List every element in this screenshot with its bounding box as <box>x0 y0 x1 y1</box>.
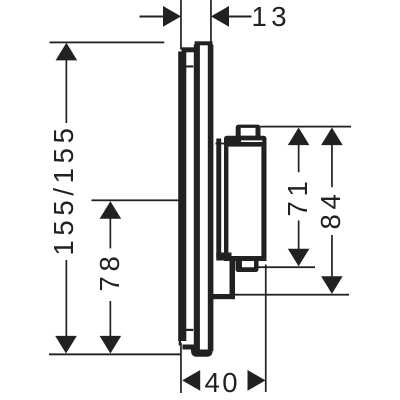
dim 155 up arrow <box>56 43 78 61</box>
dim 40 left arrow <box>182 370 200 391</box>
wire: dim 84 line lower segment <box>331 235 333 277</box>
plate top cap <box>195 41 213 45</box>
sleeve wall foot <box>179 341 181 346</box>
dim 40 right arrow <box>248 370 266 391</box>
valve lower body right wall <box>230 259 236 295</box>
dim 155 down arrow <box>55 336 77 354</box>
dim 84 down arrow <box>321 276 343 294</box>
plate right wall <box>208 45 214 352</box>
sleeve separator line bottom <box>186 329 194 331</box>
handle bottom bar <box>224 256 267 261</box>
wire: 71 bottom extension line <box>259 266 316 268</box>
svg-text:13: 13 <box>252 1 292 32</box>
wire: 84 bottom extension line <box>235 294 349 296</box>
svg-text:78: 78 <box>94 252 125 292</box>
handle bottom button <box>236 261 259 272</box>
wire: right top extension line (71/84) <box>261 126 352 128</box>
wire: bottom baseline <box>49 353 181 355</box>
dim 71 up arrow <box>288 128 310 146</box>
dim 78 up arrow <box>100 201 122 219</box>
dim 13 left arrow <box>163 6 181 27</box>
dim 78 down arrow <box>100 336 122 354</box>
sleeve separator line top <box>186 65 194 67</box>
wire: dim 71 line lower segment <box>298 221 300 250</box>
handle top button <box>236 125 261 137</box>
dim 71 down arrow <box>288 249 310 267</box>
svg-text:84: 84 <box>315 190 346 230</box>
wire: top extension line of 78 dim <box>92 199 181 201</box>
wire: top extension line of 155 dim <box>50 42 165 44</box>
svg-text:40: 40 <box>205 367 241 398</box>
handle top cap <box>224 136 267 147</box>
plate left wall <box>194 45 200 352</box>
sleeve bottom cap <box>183 345 195 350</box>
handle left wall <box>224 147 228 257</box>
wire: plate-front extension line top <box>210 0 212 43</box>
handle right wall <box>261 147 266 257</box>
sleeve left wall <box>178 52 186 342</box>
wire: wall extension line top <box>180 0 182 50</box>
dim 13 right arrow <box>211 6 229 27</box>
svg-text:71: 71 <box>282 177 313 217</box>
wire: dim 155 line lower segment <box>66 260 68 336</box>
svg-text:155/155: 155/155 <box>48 123 79 255</box>
wire: 40 right extension line <box>265 265 267 393</box>
shower valve plate: sleeve top cap <box>182 47 196 52</box>
valve lower body bottom bar <box>211 294 235 299</box>
valve stub column <box>216 139 221 258</box>
wire: wall extension line bottom <box>180 343 182 393</box>
dim 84 up arrow <box>321 128 343 146</box>
plate bottom cap <box>191 350 213 357</box>
stub top joint line <box>216 143 225 145</box>
wire: dim 78 line lower segment <box>110 301 112 336</box>
valve lower step <box>216 253 231 261</box>
